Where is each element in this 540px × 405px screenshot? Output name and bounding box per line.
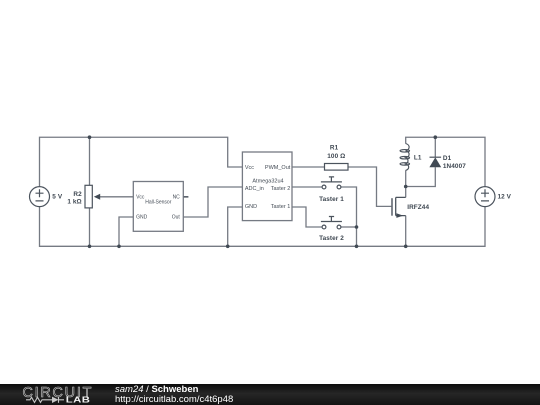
svg-text:R2: R2 [73,191,82,198]
svg-text:ADC_in: ADC_in [245,186,264,192]
svg-text:Out: Out [172,215,181,221]
svg-text:5 V: 5 V [52,194,63,201]
svg-text:Vcc: Vcc [136,195,145,201]
svg-text:GND: GND [245,204,257,210]
svg-text:D1: D1 [443,155,452,162]
svg-text:LAB: LAB [66,396,90,405]
svg-text:Taster 2: Taster 2 [271,186,291,192]
svg-text:PWM_Out: PWM_Out [265,165,291,171]
svg-text:100 Ω: 100 Ω [327,153,345,160]
svg-text:NC: NC [173,195,181,201]
svg-text:R1: R1 [330,145,339,152]
svg-text:Taster 1: Taster 1 [319,196,344,203]
svg-text:L1: L1 [414,154,422,161]
svg-text:1 kΩ: 1 kΩ [67,198,81,205]
svg-text:Atmega32u4: Atmega32u4 [252,179,283,185]
svg-text:Taster 1: Taster 1 [271,204,291,210]
svg-text:Taster 2: Taster 2 [319,235,344,242]
svg-text:1N4007: 1N4007 [443,163,466,170]
svg-text:12 V: 12 V [498,194,512,201]
svg-text:Hall-Sensor: Hall-Sensor [145,199,171,205]
svg-text:IRFZ44: IRFZ44 [407,204,429,211]
svg-text:GND: GND [136,215,148,221]
svg-text:Vcc: Vcc [245,165,254,171]
